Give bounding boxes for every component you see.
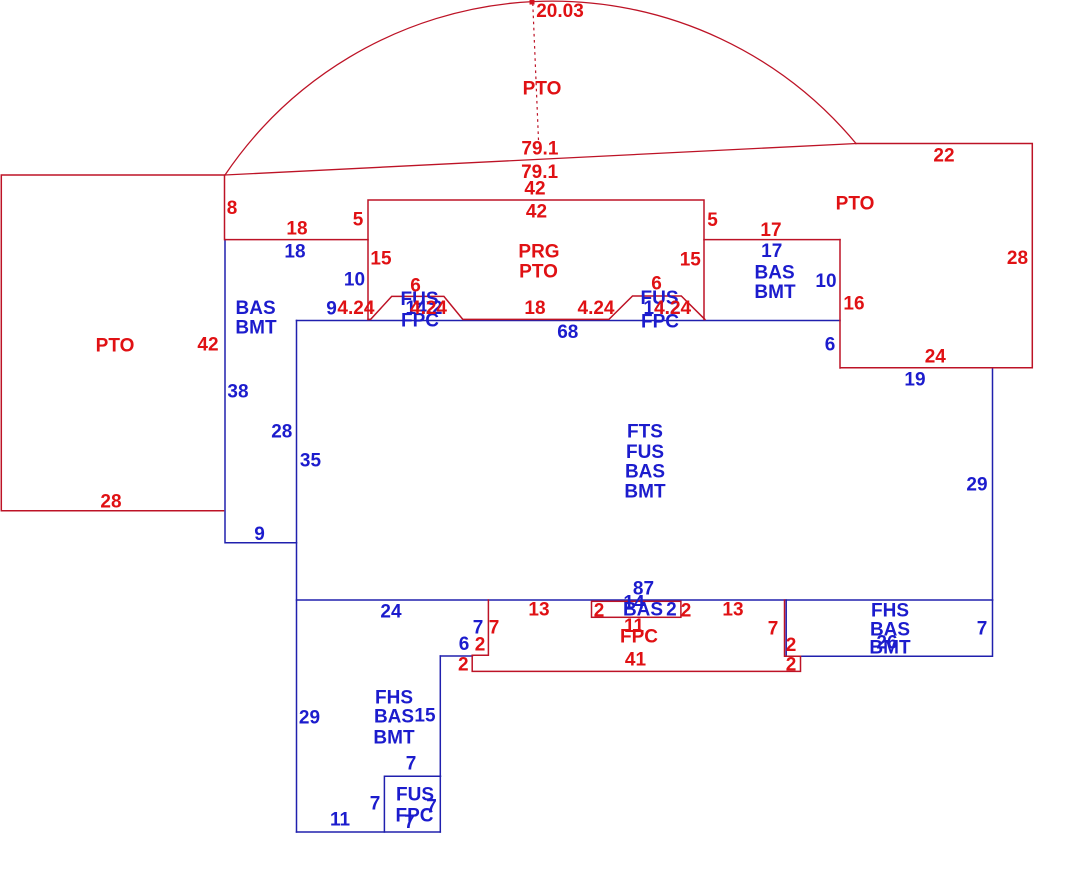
red outlines [1, 1, 1032, 671]
arc [225, 1, 856, 175]
PRG PTO bottom with trapezoid bumps [368, 296, 705, 319]
top-right PTO rectangle [841, 144, 1032, 368]
bottom FPC region [472, 600, 800, 671]
dotted sagitta line [533, 4, 539, 140]
svg-text:79.1: 79.1 [521, 138, 558, 159]
svg-text:17: 17 [760, 220, 781, 241]
svg-text:7: 7 [768, 619, 779, 640]
svg-text:9: 9 [326, 298, 337, 319]
svg-text:29: 29 [966, 475, 987, 496]
svg-text:7: 7 [404, 812, 415, 833]
svg-text:42: 42 [197, 335, 218, 356]
svg-text:FHS: FHS [375, 688, 413, 709]
svg-text:19: 19 [904, 370, 925, 391]
svg-text:2: 2 [458, 655, 469, 676]
svg-text:15: 15 [414, 706, 436, 727]
svg-text:PTO: PTO [836, 194, 875, 215]
svg-text:8: 8 [227, 198, 238, 219]
svg-text:FHS: FHS [871, 601, 909, 622]
svg-text:41: 41 [625, 650, 647, 671]
svg-text:4.24: 4.24 [337, 298, 374, 319]
svg-text:9: 9 [254, 524, 265, 545]
svg-text:7: 7 [406, 754, 417, 775]
svg-text:16: 16 [843, 294, 864, 315]
step to red notch [440, 655, 472, 657]
chord line [225, 144, 856, 176]
svg-text:PRG: PRG [518, 241, 559, 262]
svg-text:BMT: BMT [754, 282, 796, 303]
FUS FPC small box [384, 776, 440, 832]
svg-text:13: 13 [528, 600, 549, 621]
left PTO rectangle [1, 175, 224, 511]
svg-text:FUS: FUS [626, 442, 664, 463]
svg-text:18: 18 [524, 298, 545, 319]
svg-text:7: 7 [426, 797, 437, 818]
svg-text:2: 2 [786, 635, 797, 656]
main region right edge [992, 368, 994, 600]
svg-text:18: 18 [284, 242, 305, 263]
main region top edge [297, 320, 841, 322]
blue outlines [225, 240, 993, 832]
svg-text:5: 5 [353, 210, 364, 231]
svg-text:4.24: 4.24 [654, 298, 691, 319]
right BAS BMT box top [704, 239, 840, 241]
main region left edge [296, 321, 298, 833]
svg-text:42: 42 [524, 179, 545, 200]
blue labels [227, 241, 987, 833]
svg-text:PTO: PTO [519, 262, 558, 283]
svg-text:38: 38 [227, 382, 248, 403]
svg-text:6: 6 [825, 335, 836, 356]
svg-text:4.24: 4.24 [578, 298, 615, 319]
svg-text:PTO: PTO [96, 336, 135, 357]
svg-text:FPC: FPC [620, 627, 658, 648]
svg-text:BAS: BAS [236, 298, 276, 319]
right BAS BMT box right edge [839, 240, 841, 368]
svg-text:2: 2 [681, 601, 692, 622]
lower-left FHS region bottom [297, 831, 441, 833]
left BAS BMT region [225, 240, 297, 543]
svg-text:68: 68 [557, 322, 578, 343]
svg-text:7: 7 [489, 618, 500, 639]
svg-text:28: 28 [1007, 248, 1028, 269]
svg-text:24: 24 [925, 347, 947, 368]
svg-text:28: 28 [100, 492, 121, 513]
svg-text:2: 2 [475, 635, 486, 656]
svg-text:2: 2 [666, 600, 677, 621]
svg-text:2: 2 [786, 655, 797, 676]
svg-text:15: 15 [680, 250, 702, 271]
svg-text:35: 35 [300, 451, 322, 472]
svg-text:11: 11 [330, 810, 351, 831]
svg-text:6: 6 [459, 634, 470, 655]
svg-text:FTS: FTS [627, 422, 663, 443]
PRG PTO box [368, 200, 704, 319]
svg-text:BAS: BAS [755, 263, 795, 284]
svg-text:BMT: BMT [235, 318, 277, 339]
svg-text:6: 6 [410, 276, 421, 297]
svg-text:BMT: BMT [373, 728, 415, 749]
svg-text:29: 29 [299, 707, 320, 728]
svg-text:BAS: BAS [625, 462, 665, 483]
svg-text:4.24: 4.24 [410, 298, 447, 319]
svg-text:7: 7 [370, 794, 381, 815]
svg-text:10: 10 [344, 269, 365, 290]
svg-text:42: 42 [526, 202, 547, 223]
red labels [96, 1, 1028, 675]
svg-text:5: 5 [707, 210, 718, 231]
svg-text:28: 28 [271, 422, 292, 443]
svg-text:22: 22 [933, 146, 954, 167]
svg-text:PTO: PTO [523, 79, 562, 100]
main region bottom edge [297, 599, 993, 601]
right FHS BAS BMT box [786, 600, 992, 656]
svg-text:6: 6 [651, 274, 662, 295]
bottom BAS small red box [592, 601, 681, 617]
svg-text:13: 13 [722, 600, 743, 621]
lower-left FHS right edge [439, 656, 441, 832]
svg-text:26: 26 [876, 633, 897, 654]
svg-text:20.03: 20.03 [536, 1, 584, 22]
svg-text:17: 17 [761, 241, 782, 262]
svg-text:18: 18 [286, 219, 307, 240]
svg-text:10: 10 [815, 271, 836, 292]
svg-text:24: 24 [380, 602, 402, 623]
svg-text:15: 15 [370, 249, 392, 270]
arc peak marker [530, 0, 535, 5]
svg-text:BAS: BAS [374, 707, 414, 728]
svg-text:BMT: BMT [624, 482, 666, 503]
svg-text:2: 2 [594, 601, 605, 622]
svg-text:7: 7 [977, 619, 988, 640]
18 segment [225, 239, 368, 241]
